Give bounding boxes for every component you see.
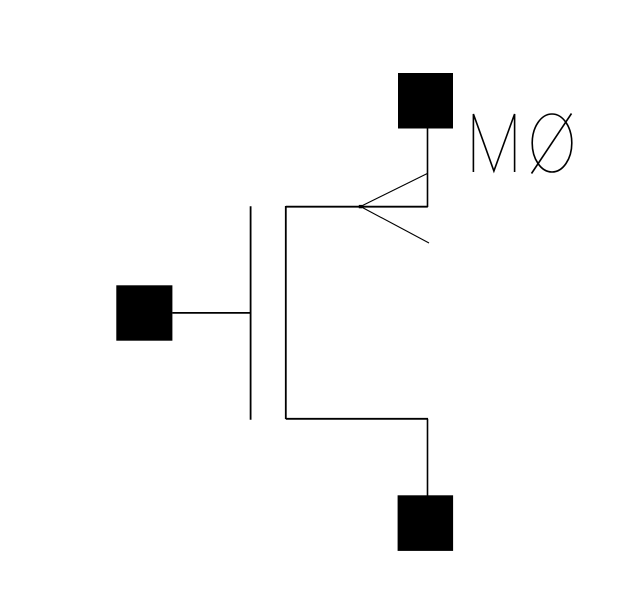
transistor M0 drain lead (top horizontal) [286,206,428,208]
transistor M0 channel bar [285,206,287,419]
label M0: slashed zero [532,114,572,174]
transistor M0 arrow upper leg [361,174,428,207]
wire: source vertical segment [427,419,429,496]
transistor M0 arrow lower leg [361,207,430,244]
transistor M0 gate bar [250,206,252,420]
pin square: gate terminal of M0 [116,285,172,340]
pin square: source terminal of M0 [398,495,454,551]
wire: gate horizontal segment [172,312,250,314]
label M0: letter M [473,114,514,172]
pin square: drain terminal of M0 [398,73,453,129]
junction blob at arrow tip [359,205,362,208]
wire: drain vertical segment [427,128,429,207]
transistor M0 source lead (bottom horizontal) [286,418,428,420]
